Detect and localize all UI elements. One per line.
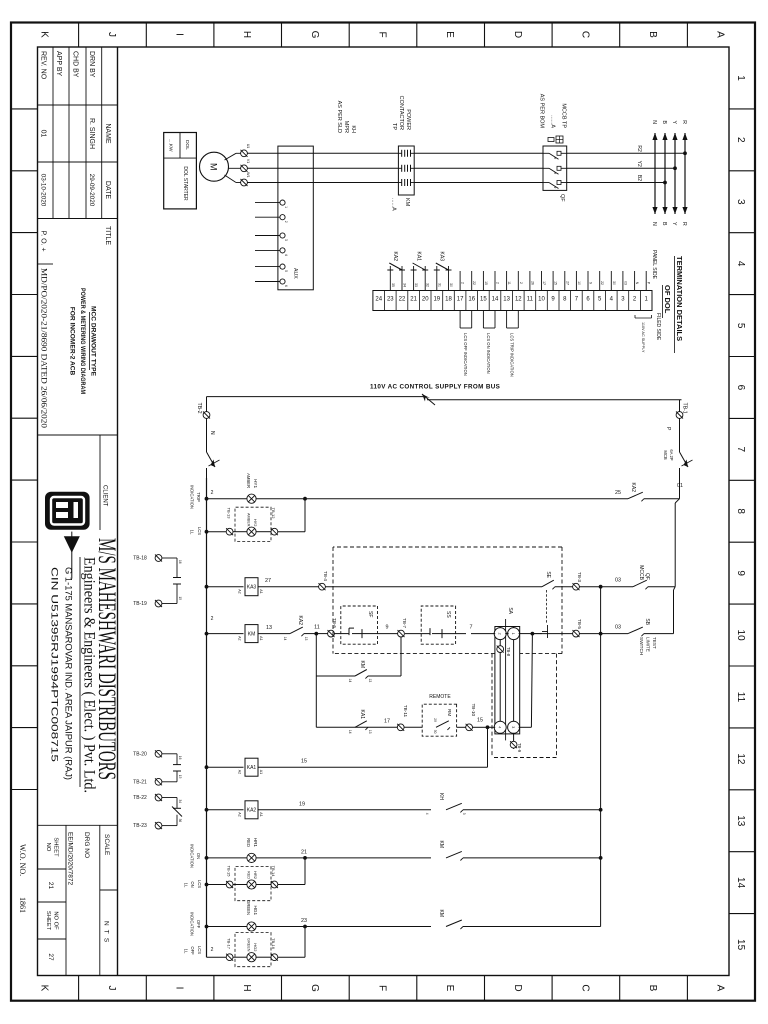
svg-text:INDICATION: INDICATION [190,912,195,936]
svg-text:QF: QF [559,194,565,202]
svg-text:11: 11 [735,692,746,703]
svg-text:3: 3 [735,199,746,205]
svg-text:TITLE: TITLE [104,226,111,245]
svg-text:4: 4 [497,726,501,728]
svg-text:TB-19: TB-19 [133,601,147,607]
svg-text:1L: 1L [184,883,189,888]
svg-text:03: 03 [623,281,627,285]
svg-text:TB-11: TB-11 [403,705,408,718]
svg-text:N T S: N T S [103,921,110,943]
svg-text:NO OF: NO OF [53,911,59,930]
svg-text:26: 26 [530,281,534,285]
svg-text:TB-15: TB-15 [227,866,232,878]
svg-text:10: 10 [735,630,746,642]
svg-text:KH: KH [438,793,444,800]
svg-text:OFF: OFF [196,920,201,929]
svg-text:TB-3: TB-3 [577,572,582,582]
svg-text:11: 11 [527,297,534,303]
svg-text:B: B [647,31,658,38]
svg-text:LCS: LCS [197,527,202,535]
svg-text:MCCB TP: MCCB TP [561,103,567,128]
svg-text:Y: Y [671,222,677,226]
svg-text:MD/PO/2020-21/8690 DATED 26/06: MD/PO/2020-21/8690 DATED 26/06/2020 [39,268,48,428]
svg-text:TRIP: TRIP [196,492,201,502]
svg-text:4: 4 [735,261,746,267]
svg-text:SHEET: SHEET [53,837,59,857]
svg-text:H: H [241,984,252,991]
svg-text:V1: V1 [246,159,250,163]
svg-text:15: 15 [477,717,483,723]
svg-text:G: G [309,31,320,39]
svg-text:HY2: HY2 [253,519,258,528]
svg-text:TB-1: TB-1 [682,403,688,414]
svg-text:HG2: HG2 [253,943,258,952]
svg-text:SF: SF [367,611,373,617]
svg-text:M: M [209,163,219,171]
svg-text:A1: A1 [259,812,263,816]
svg-text:TB-2: TB-2 [196,403,202,414]
svg-text:CHD BY: CHD BY [71,51,78,78]
svg-text:......A: ......A [391,198,397,211]
svg-text:MPR: MPR [343,121,349,133]
svg-text:14: 14 [735,877,746,889]
svg-text:HR1: HR1 [253,838,258,848]
svg-text:TERMINATION DETAILS: TERMINATION DETAILS [675,256,684,341]
svg-text:TB-20: TB-20 [133,751,147,757]
svg-text:TB-23: TB-23 [133,823,147,829]
svg-text:23: 23 [301,918,307,924]
svg-text:A: A [715,985,726,992]
svg-text:J: J [106,986,117,991]
svg-text:TB-22: TB-22 [133,795,147,801]
svg-text:E: E [444,985,455,992]
svg-text:EE/MD/2020/7872: EE/MD/2020/7872 [67,832,74,886]
svg-text:*: * [550,172,556,174]
svg-text:ON: ON [196,853,201,859]
svg-text:12: 12 [735,753,746,765]
svg-text:35: 35 [391,283,395,287]
svg-text:F: F [377,985,388,991]
svg-text:19: 19 [299,801,305,807]
svg-text:D: D [512,984,523,991]
svg-text:HY1: HY1 [253,479,258,488]
svg-text:LCS TRIP INDICATION: LCS TRIP INDICATION [509,333,514,377]
svg-text:KH: KH [350,125,356,133]
svg-text:110V AC SUPPLY: 110V AC SUPPLY [641,322,645,353]
svg-text:QF: QF [644,573,650,580]
svg-text:AMBER: AMBER [246,473,251,488]
svg-text:TB-8: TB-8 [506,647,511,657]
svg-text:15: 15 [735,939,746,951]
svg-text:24: 24 [375,297,382,303]
svg-text:1: 1 [284,206,288,208]
svg-text:2: 2 [496,282,500,284]
svg-text:2: 2 [284,221,288,223]
svg-text:36: 36 [178,819,182,823]
svg-text:TB-16: TB-16 [271,938,276,950]
svg-text:2: 2 [735,137,746,143]
svg-text:30: 30 [433,730,437,734]
svg-text:30: 30 [449,283,453,287]
svg-text:LCS: LCS [197,880,202,888]
svg-text:13: 13 [266,625,272,631]
svg-text:CONTACTOR: CONTACTOR [398,96,404,130]
svg-text:SCALE: SCALE [103,834,110,856]
svg-text:AUX: AUX [292,268,298,279]
svg-text:5: 5 [284,270,288,272]
svg-text:Y2: Y2 [636,161,642,167]
svg-text:25: 25 [615,490,621,496]
svg-text:MCC DRAWOUT TYPE: MCC DRAWOUT TYPE [90,306,97,377]
svg-text:A: A [715,31,726,38]
svg-text:KM: KM [438,910,444,918]
svg-text:16: 16 [178,560,182,564]
svg-text:PANEL SIDE: PANEL SIDE [651,250,657,280]
svg-text:U1: U1 [246,144,250,149]
svg-text:29: 29 [433,718,437,722]
svg-text:17: 17 [542,281,546,285]
svg-text:4: 4 [284,254,288,256]
svg-text:OF DOL: OF DOL [663,285,672,314]
svg-text:15: 15 [554,281,558,285]
svg-text:CLIENT: CLIENT [102,485,108,507]
svg-text:34: 34 [403,283,407,287]
svg-text:21: 21 [47,882,54,890]
svg-text:SWITCH: SWITCH [639,637,644,655]
svg-text:CIN U51395RJ1994PTC008715: CIN U51395RJ1994PTC008715 [50,567,60,762]
svg-text:TB-10: TB-10 [471,703,476,716]
svg-text:DOL STARTER: DOL STARTER [182,166,188,201]
svg-text:TB-7: TB-7 [402,618,407,628]
svg-text:13: 13 [368,730,372,734]
svg-text:I: I [174,33,185,36]
svg-text:21: 21 [301,849,307,855]
svg-text:Engineers & Engineers ( Elect.: Engineers & Engineers ( Elect. ) Pvt. Lt… [81,557,98,793]
svg-text:1: 1 [735,75,746,81]
svg-text:9: 9 [589,282,593,284]
svg-text:GREEN: GREEN [247,938,251,952]
svg-text:21: 21 [410,297,417,303]
svg-text:FILED SIDE: FILED SIDE [655,313,661,341]
svg-text:TB-12: TB-12 [271,508,276,520]
svg-text:16: 16 [178,756,182,760]
svg-text:12: 12 [515,297,522,303]
svg-text:AS PER SLD: AS PER SLD [336,101,342,133]
svg-text:TB-21: TB-21 [133,779,147,785]
svg-text:KA3: KA3 [439,252,445,262]
svg-text:2: 2 [497,633,501,635]
svg-text:9: 9 [386,625,389,631]
svg-text:2: 2 [519,282,523,284]
svg-text:KM: KM [359,661,365,669]
svg-text:2: 2 [211,616,214,622]
svg-text:NO: NO [45,843,51,852]
svg-text:A2: A2 [238,589,242,593]
svg-text:9: 9 [735,570,746,576]
svg-text:APP BY: APP BY [55,51,62,76]
svg-text:HG1: HG1 [253,906,258,916]
svg-text:6: 6 [284,285,288,287]
svg-text:A2: A2 [238,770,242,774]
svg-text:14: 14 [283,637,287,641]
svg-text:10: 10 [577,281,581,285]
svg-text:5: 5 [735,323,746,329]
svg-text:03: 03 [615,625,621,631]
svg-text:FOR INCOMER-2 ACB: FOR INCOMER-2 ACB [69,307,76,376]
svg-text:13: 13 [503,297,510,303]
svg-text:2: 2 [211,490,214,496]
svg-text:HR2: HR2 [253,871,258,880]
svg-text:LCS OFF INDICATION: LCS OFF INDICATION [463,333,468,376]
svg-text:K: K [38,985,49,992]
svg-text:32: 32 [426,283,430,287]
svg-text:6: 6 [735,385,746,391]
svg-text:GREEN: GREEN [246,900,251,915]
svg-text:LCS: LCS [197,946,202,954]
svg-text:D: D [512,31,523,38]
svg-text:B: B [647,985,658,992]
svg-text:NAME: NAME [104,123,111,144]
svg-text:G: G [309,984,320,992]
svg-text:15: 15 [178,775,182,779]
svg-text:K: K [38,31,49,38]
svg-text:B: B [661,222,667,226]
svg-text:P. O. +: P. O. + [39,230,46,251]
svg-text:MCB: MCB [663,450,668,460]
svg-text:INDICATION: INDICATION [190,485,195,509]
svg-text:SE: SE [545,571,551,578]
svg-text:23: 23 [387,297,394,303]
svg-text:10: 10 [538,297,545,303]
svg-text:Y: Y [671,121,677,125]
svg-text:22: 22 [600,281,604,285]
svg-text:B2: B2 [636,175,642,181]
svg-text:KM: KM [404,198,410,207]
svg-text:G 1-175 MANSAROVAR IND. AREA J: G 1-175 MANSAROVAR IND. AREA JAIPUR (RAJ… [64,567,74,780]
svg-text:A1: A1 [259,770,263,774]
svg-text:R2: R2 [636,145,642,152]
svg-text:4: 4 [425,813,429,815]
svg-text:*: * [550,187,556,189]
svg-text:14: 14 [492,297,499,303]
svg-text:3: 3 [511,726,515,728]
svg-text:13: 13 [304,637,308,641]
svg-text:33: 33 [414,283,418,287]
svg-text:8: 8 [735,508,746,514]
svg-text:KA2: KA2 [297,616,303,626]
svg-text:TB-4: TB-4 [323,571,328,581]
svg-text:22: 22 [472,281,476,285]
svg-text:20: 20 [422,297,429,303]
svg-text:SS: SS [445,611,451,618]
svg-text:LIMITE: LIMITE [646,637,651,652]
svg-text:W1: W1 [246,172,250,177]
svg-text:KA2: KA2 [392,252,398,262]
svg-text:17: 17 [384,718,390,724]
svg-text:11: 11 [314,625,320,631]
svg-text:01: 01 [677,483,683,489]
svg-text:17: 17 [457,297,464,303]
svg-text:POWER: POWER [405,109,411,130]
svg-text:KA2: KA2 [247,808,257,814]
svg-text:27: 27 [47,953,54,961]
svg-text:REV. NO: REV. NO [39,51,46,80]
svg-text:LCS ON INDICATION: LCS ON INDICATION [486,333,491,374]
svg-text:KA1: KA1 [359,710,365,720]
svg-text:B: B [661,121,667,125]
svg-text:19: 19 [433,297,440,303]
svg-text:E: E [444,31,455,38]
svg-text:R. SINGH: R. SINGH [88,118,95,149]
svg-text:14: 14 [348,679,352,683]
svg-text:REMOTE: REMOTE [429,694,451,700]
svg-text:KA1: KA1 [415,252,421,262]
svg-text:03-10-2020: 03-10-2020 [39,174,46,207]
svg-text:DATE: DATE [104,181,111,199]
svg-text:R: R [681,222,687,226]
svg-text:AS PER BOM: AS PER BOM [539,94,545,129]
svg-text:2: 2 [211,947,214,953]
svg-text:TB-18: TB-18 [133,556,147,562]
svg-text:34: 34 [178,800,182,804]
svg-text:29-09-2020: 29-09-2020 [88,174,95,207]
svg-text:*: * [550,157,556,159]
svg-text:H: H [241,31,252,38]
svg-text:15: 15 [178,597,182,601]
svg-text:110V AC CONTROL SUPPLY FROM BU: 110V AC CONTROL SUPPLY FROM BUS [370,384,500,391]
svg-text:22: 22 [399,297,406,303]
svg-text:18: 18 [445,297,452,303]
svg-text:KM: KM [248,631,256,637]
svg-text:RED: RED [247,871,251,879]
svg-text:KA3: KA3 [247,585,257,591]
svg-text:SB: SB [644,618,650,625]
svg-text:3: 3 [284,239,288,241]
svg-text:DRN BY: DRN BY [88,51,95,78]
svg-text:I: I [174,987,185,990]
svg-text:KA1: KA1 [247,765,257,771]
svg-text:1L: 1L [184,949,189,954]
svg-text:N: N [209,431,215,435]
svg-text:C: C [579,31,590,38]
svg-text:N: N [651,120,657,124]
svg-text:1: 1 [511,633,515,635]
svg-text:POWER & METERING WIRING DIAGRA: POWER & METERING WIRING DIAGRAM [79,288,86,394]
svg-text:31: 31 [437,283,441,287]
svg-text:KA2: KA2 [630,483,636,493]
svg-text:ON: ON [190,881,195,887]
svg-text:F: F [377,31,388,37]
svg-text:TB-5: TB-5 [577,619,582,629]
svg-text:03: 03 [615,578,621,584]
svg-text:INDICATION: INDICATION [190,844,195,868]
svg-text:15: 15 [484,281,488,285]
svg-text:27: 27 [265,578,271,584]
svg-text:OFF: OFF [190,946,195,955]
svg-text:15: 15 [480,297,487,303]
svg-text:7: 7 [470,625,473,631]
svg-text:TP: TP [391,123,397,130]
svg-text:R: R [681,120,687,124]
svg-text:A1: A1 [259,589,263,593]
svg-text:W.O. NO.: W.O. NO. [18,844,27,876]
svg-text:13: 13 [735,815,746,827]
svg-text:30: 30 [612,281,616,285]
svg-text:AMBER: AMBER [247,513,251,527]
svg-text:16: 16 [468,297,475,303]
svg-text:KM: KM [438,841,444,849]
svg-text:J: J [106,32,117,37]
svg-text:A2: A2 [238,636,242,640]
svg-text:SHEET: SHEET [45,911,51,931]
svg-text:13: 13 [368,679,372,683]
svg-text:C: C [579,984,590,991]
svg-text:N: N [651,222,657,226]
svg-text:TB-17: TB-17 [227,938,232,950]
svg-text:27: 27 [565,281,569,285]
svg-text:1861: 1861 [18,897,27,913]
svg-text:DRG NO: DRG NO [83,832,90,858]
svg-text:A2: A2 [238,812,242,816]
svg-text:A1: A1 [259,636,263,640]
svg-text:......A: ......A [550,115,556,128]
svg-text:01: 01 [39,130,46,138]
svg-text:6A 2P: 6A 2P [669,449,674,460]
svg-text:15: 15 [301,759,307,765]
svg-text:1L: 1L [190,530,195,535]
svg-text:TEST: TEST [652,637,657,649]
svg-text:7: 7 [735,447,746,453]
svg-text:RED: RED [246,838,251,847]
svg-text:TB-13: TB-13 [227,508,232,520]
svg-text:2: 2 [461,282,465,284]
svg-text:SA: SA [507,607,513,614]
svg-text:RM: RM [447,709,452,716]
svg-text:11: 11 [507,281,511,285]
svg-text:3: 3 [462,813,466,815]
svg-text:TB-9: TB-9 [517,743,522,753]
svg-text:TB-14: TB-14 [271,866,276,878]
svg-text:MCCB: MCCB [638,565,644,580]
svg-text:14: 14 [348,730,352,734]
